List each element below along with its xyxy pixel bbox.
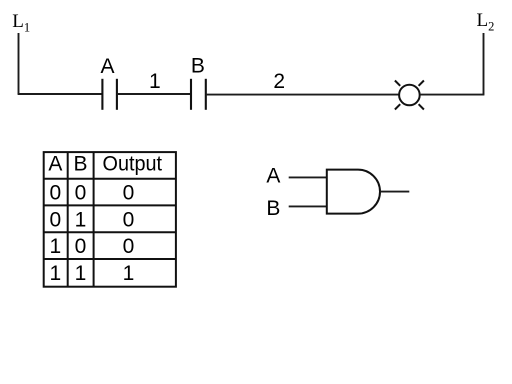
svg-text:1: 1 xyxy=(75,208,87,231)
truth table frame xyxy=(44,152,176,287)
wire: gate input B xyxy=(289,205,327,207)
svg-text:0: 0 xyxy=(50,182,62,205)
lamp L (output coil) xyxy=(395,81,424,110)
truth table column divider B|Output xyxy=(93,152,95,287)
truth table column divider A|B xyxy=(67,152,69,287)
svg-text:A: A xyxy=(48,152,62,175)
wire: rung segment from lamp to right rail xyxy=(420,94,485,96)
contact B (normally-open) xyxy=(191,79,206,110)
wire: gate output xyxy=(380,191,409,193)
wire: rung segment between contact A and contact B (node 1) xyxy=(117,93,191,95)
truth table row divider 1 xyxy=(44,178,176,180)
svg-text:0: 0 xyxy=(123,235,135,258)
truth table row 4: 1 1 1 xyxy=(50,262,135,285)
svg-text:1: 1 xyxy=(50,235,62,258)
truth table row divider 2 xyxy=(44,204,176,206)
svg-text:0: 0 xyxy=(50,208,62,231)
svg-text:1: 1 xyxy=(50,262,62,285)
wire: gate input A xyxy=(289,176,327,178)
contact A (normally-open) xyxy=(102,79,117,110)
svg-text:1: 1 xyxy=(123,262,135,285)
wire: left rail vertical from L1 xyxy=(18,33,20,94)
svg-text:2: 2 xyxy=(273,70,285,93)
truth table row 2: 0 1 0 xyxy=(50,208,135,231)
AND gate U1 xyxy=(327,170,380,214)
truth table row 3: 1 0 0 xyxy=(50,235,135,258)
svg-text:L2: L2 xyxy=(477,10,495,34)
svg-text:0: 0 xyxy=(123,182,135,205)
svg-text:0: 0 xyxy=(75,235,87,258)
truth table row 1: 0 0 0 xyxy=(50,182,135,205)
svg-text:1: 1 xyxy=(149,70,161,93)
wire: rung segment from L1 rail to contact A xyxy=(18,93,103,95)
svg-text:0: 0 xyxy=(123,208,135,231)
svg-text:L1: L1 xyxy=(12,11,30,35)
wire: rung segment between contact B and lamp (node 2) xyxy=(206,94,399,96)
svg-text:B: B xyxy=(73,152,87,175)
svg-text:B: B xyxy=(266,197,280,220)
truth table row divider 3 xyxy=(44,231,176,233)
svg-text:B: B xyxy=(191,54,205,77)
wire: right rail vertical to L2 xyxy=(483,33,485,95)
svg-text:A: A xyxy=(100,55,114,78)
svg-text:1: 1 xyxy=(75,262,87,285)
svg-text:Output: Output xyxy=(103,152,163,175)
svg-text:0: 0 xyxy=(75,182,87,205)
svg-text:A: A xyxy=(266,165,280,188)
truth table row divider 4 xyxy=(44,258,176,260)
